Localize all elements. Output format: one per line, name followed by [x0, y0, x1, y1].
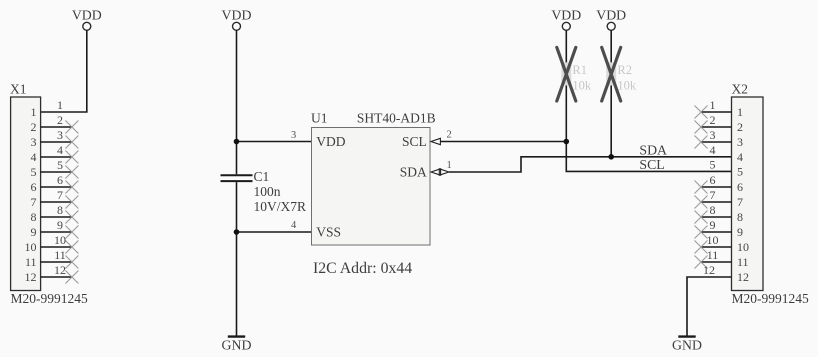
power symbol VDD net at C1/U1 [222, 7, 252, 30]
svg-text:X2: X2 [732, 82, 749, 97]
X1 pin 11 (no connect) [25, 248, 78, 269]
X2 pin 12 (to GND) [703, 263, 749, 284]
svg-text:10: 10 [54, 233, 66, 247]
wire GND rail to U1 pin 4 [237, 231, 312, 233]
svg-text:M20-9991245: M20-9991245 [732, 291, 809, 306]
X2 pin 10 (no connect) [695, 233, 750, 254]
svg-text:2: 2 [737, 120, 743, 134]
svg-text:M20-9991245: M20-9991245 [11, 291, 88, 306]
svg-text:11: 11 [54, 248, 66, 262]
svg-text:3: 3 [57, 128, 63, 142]
svg-text:4: 4 [737, 150, 743, 164]
svg-text:9: 9 [737, 225, 743, 239]
svg-text:2: 2 [57, 113, 63, 127]
svg-text:VSS: VSS [316, 224, 341, 239]
connector X2 [732, 97, 764, 291]
X2 pin 8 (no connect) [695, 203, 744, 224]
U1 pin 3 VDD [291, 130, 346, 149]
svg-text:9: 9 [710, 218, 716, 232]
X2 pin 2 (no connect) [695, 113, 744, 134]
wire SCL net: U1 pin2 to R1 to X2 pin5 [440, 142, 731, 172]
svg-text:100n: 100n [254, 184, 281, 199]
svg-text:1: 1 [737, 105, 743, 119]
svg-text:SCL: SCL [639, 157, 664, 172]
wire X2 pin12 to GND [687, 277, 732, 336]
svg-text:10V/X7R: 10V/X7R [254, 199, 307, 214]
svg-text:1: 1 [447, 160, 452, 171]
svg-text:5: 5 [31, 165, 37, 179]
svg-text:2: 2 [447, 130, 452, 141]
ground symbol GND under C1 [222, 337, 252, 353]
X1 pin 2 (no connect) [31, 113, 79, 134]
resistor R1 body (DNP, greyed) [561, 62, 592, 92]
svg-text:8: 8 [57, 203, 63, 217]
X2 pin 3 (no connect) [695, 128, 744, 149]
svg-text:6: 6 [710, 173, 716, 187]
wire SDA net: U1 pin1 to R2 to X2 pin4 [449, 157, 732, 172]
svg-text:X1: X1 [10, 82, 27, 97]
wire VDD to R1 to SCL node [565, 30, 567, 141]
svg-text:VDD: VDD [316, 134, 345, 149]
svg-text:SDA: SDA [639, 142, 667, 157]
svg-text:11: 11 [25, 255, 37, 269]
R1 DNP cross mark [557, 47, 576, 101]
svg-text:11: 11 [737, 255, 749, 269]
svg-text:3: 3 [31, 135, 37, 149]
U1 pin 4 VSS [291, 220, 341, 239]
svg-text:12: 12 [54, 263, 66, 277]
X2 pin 5 (SCL) [710, 158, 744, 179]
svg-text:GND: GND [222, 337, 252, 352]
svg-text:7: 7 [710, 188, 716, 202]
svg-text:VDD: VDD [222, 7, 252, 22]
X1 pin 12 (no connect) [25, 263, 79, 284]
ground symbol GND under X2 [672, 337, 702, 353]
X1 pin 5 (no connect) [31, 158, 79, 179]
svg-text:2: 2 [31, 120, 37, 134]
svg-text:2: 2 [710, 113, 716, 127]
svg-text:10: 10 [737, 240, 749, 254]
power symbol VDD net at R2 [596, 7, 626, 30]
svg-text:U1: U1 [311, 111, 328, 126]
svg-text:4: 4 [57, 143, 63, 157]
svg-text:4: 4 [710, 143, 716, 157]
svg-text:7: 7 [31, 195, 37, 209]
svg-text:R2: R2 [617, 63, 632, 77]
svg-text:VDD: VDD [551, 7, 581, 22]
svg-text:C1: C1 [254, 169, 270, 184]
svg-text:SDA: SDA [400, 164, 427, 179]
junction R1 / SCL [564, 139, 570, 145]
svg-text:SCL: SCL [402, 134, 427, 149]
svg-text:3: 3 [737, 135, 743, 149]
svg-text:1: 1 [31, 105, 37, 119]
svg-text:8: 8 [737, 210, 743, 224]
svg-text:12: 12 [737, 270, 749, 284]
X2 pin 4 (SDA) [710, 143, 744, 164]
X2 pin 1 (no connect) [695, 98, 744, 119]
X1 pin 3 (no connect) [31, 128, 79, 149]
X1 pin 6 (no connect) [31, 173, 79, 194]
svg-text:VDD: VDD [72, 7, 102, 22]
X1 pin 7 (no connect) [31, 188, 79, 209]
connector X1 [11, 97, 41, 291]
svg-text:5: 5 [710, 158, 716, 172]
svg-text:R1: R1 [572, 63, 587, 77]
svg-text:8: 8 [31, 210, 37, 224]
svg-text:10: 10 [707, 233, 719, 247]
X2 pin 9 (no connect) [695, 218, 744, 239]
junction VDD / U1 pin 3 [234, 139, 240, 145]
svg-text:7: 7 [737, 195, 743, 209]
X1 pin 8 (no connect) [31, 203, 79, 224]
op-amp U1 body (SHT40-AD1B sensor) [312, 128, 431, 246]
svg-text:6: 6 [57, 173, 63, 187]
wire X1 pin1 to VDD [41, 30, 87, 112]
svg-text:10k: 10k [572, 78, 592, 92]
svg-text:GND: GND [672, 337, 702, 352]
svg-text:I2C Addr: 0x44: I2C Addr: 0x44 [313, 260, 412, 277]
svg-text:9: 9 [31, 225, 37, 239]
svg-text:4: 4 [31, 150, 37, 164]
svg-text:7: 7 [57, 188, 63, 202]
svg-text:6: 6 [737, 180, 743, 194]
X1 pin 4 (no connect) [31, 143, 79, 164]
svg-text:12: 12 [703, 263, 715, 277]
wire VDD rail down to C1 top plate [236, 30, 238, 174]
svg-text:1: 1 [710, 98, 716, 112]
resistor R2 body (DNP, greyed) [606, 62, 637, 92]
svg-text:4: 4 [291, 220, 297, 231]
svg-text:6: 6 [31, 180, 37, 194]
svg-text:5: 5 [737, 165, 743, 179]
junction R2 / SDA [608, 154, 614, 160]
R2 DNP cross mark [602, 47, 621, 101]
wire C1 bottom plate down to GND [236, 182, 238, 336]
X2 pin 7 (no connect) [695, 188, 744, 209]
svg-text:1: 1 [57, 98, 63, 112]
wire VDD rail to U1 pin 3 [237, 141, 312, 143]
svg-text:9: 9 [57, 218, 63, 232]
power symbol VDD net at X1 pin 1 [72, 7, 102, 30]
svg-text:10k: 10k [617, 78, 637, 92]
svg-text:VDD: VDD [596, 7, 626, 22]
svg-text:3: 3 [291, 130, 296, 141]
svg-text:12: 12 [25, 270, 37, 284]
X2 pin 11 (no connect) [695, 248, 749, 269]
X1 pin 10 (no connect) [25, 233, 79, 254]
wire VDD to R2 to SDA node [610, 30, 612, 157]
svg-text:8: 8 [710, 203, 716, 217]
U1 pin 2 SCL (input arrow) [402, 130, 452, 149]
X1 pin 9 (no connect) [31, 218, 79, 239]
svg-text:SHT40-AD1B: SHT40-AD1B [357, 111, 436, 126]
power symbol VDD net at R1 [551, 7, 581, 30]
svg-text:5: 5 [57, 158, 63, 172]
junction GND / U1 pin 4 [234, 229, 240, 235]
svg-text:3: 3 [710, 128, 716, 142]
svg-text:11: 11 [707, 248, 719, 262]
svg-text:10: 10 [25, 240, 37, 254]
U1 pin 1 SDA (bidirectional arrow) [400, 160, 452, 179]
X1 pin 1 [31, 98, 64, 119]
X2 pin 6 (no connect) [695, 173, 744, 194]
capacitor C1 [221, 175, 253, 181]
